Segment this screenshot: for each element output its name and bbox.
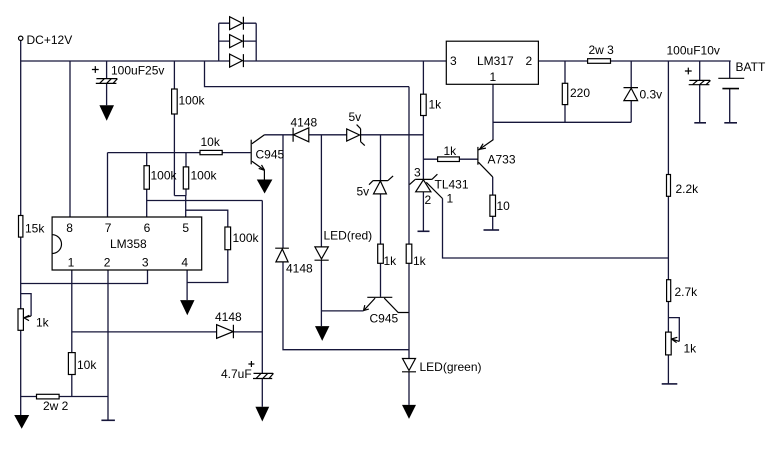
svg-text:7: 7	[105, 221, 112, 235]
svg-text:100uF25v: 100uF25v	[111, 64, 164, 78]
svg-text:5v: 5v	[349, 110, 362, 124]
svg-text:C945: C945	[256, 148, 285, 162]
svg-text:TL431: TL431	[435, 178, 469, 192]
svg-text:1k: 1k	[444, 144, 458, 158]
svg-text:0.3v: 0.3v	[640, 88, 663, 102]
svg-text:3: 3	[414, 166, 421, 180]
svg-text:10k: 10k	[201, 135, 221, 149]
svg-text:10k: 10k	[77, 358, 97, 372]
svg-text:6: 6	[144, 221, 151, 235]
svg-text:8: 8	[66, 221, 73, 235]
svg-text:LM358: LM358	[110, 237, 147, 251]
svg-text:2w 3: 2w 3	[589, 43, 615, 57]
svg-text:100k: 100k	[151, 169, 178, 183]
svg-text:220: 220	[570, 86, 590, 100]
svg-text:2w 2: 2w 2	[43, 399, 69, 413]
svg-text:3: 3	[142, 256, 149, 270]
svg-text:4148: 4148	[286, 262, 313, 276]
svg-text:LM317: LM317	[477, 54, 514, 68]
svg-text:1k: 1k	[684, 342, 698, 356]
svg-text:1: 1	[447, 192, 454, 206]
svg-text:5: 5	[182, 221, 189, 235]
svg-text:2.2k: 2.2k	[676, 182, 700, 196]
svg-text:100k: 100k	[233, 231, 260, 245]
svg-text:100k: 100k	[179, 94, 206, 108]
svg-text:2: 2	[526, 54, 533, 68]
svg-text:1k: 1k	[384, 254, 398, 268]
svg-text:4148: 4148	[291, 116, 318, 130]
svg-text:BATT: BATT	[736, 60, 766, 74]
svg-text:4: 4	[181, 256, 188, 270]
svg-text:C945: C945	[370, 312, 399, 326]
svg-text:1: 1	[68, 256, 75, 270]
svg-text:3: 3	[450, 54, 457, 68]
svg-text:2: 2	[104, 256, 111, 270]
svg-text:1k: 1k	[36, 316, 50, 330]
svg-text:A733: A733	[488, 153, 516, 167]
svg-text:4148: 4148	[215, 310, 242, 324]
svg-text:100k: 100k	[191, 169, 218, 183]
svg-text:5v: 5v	[357, 185, 370, 199]
svg-text:LED(green): LED(green)	[420, 360, 482, 374]
svg-text:LED(red): LED(red)	[324, 229, 373, 243]
svg-text:15k: 15k	[25, 222, 45, 236]
svg-text:DC+12V: DC+12V	[27, 33, 73, 47]
svg-text:1k: 1k	[413, 254, 427, 268]
svg-text:1: 1	[490, 70, 497, 84]
svg-text:100uF10v: 100uF10v	[667, 44, 720, 58]
svg-text:2: 2	[425, 193, 432, 207]
svg-text:4.7uF: 4.7uF	[221, 367, 252, 381]
svg-text:10: 10	[497, 199, 511, 213]
svg-text:2.7k: 2.7k	[675, 285, 699, 299]
svg-text:1k: 1k	[429, 98, 443, 112]
